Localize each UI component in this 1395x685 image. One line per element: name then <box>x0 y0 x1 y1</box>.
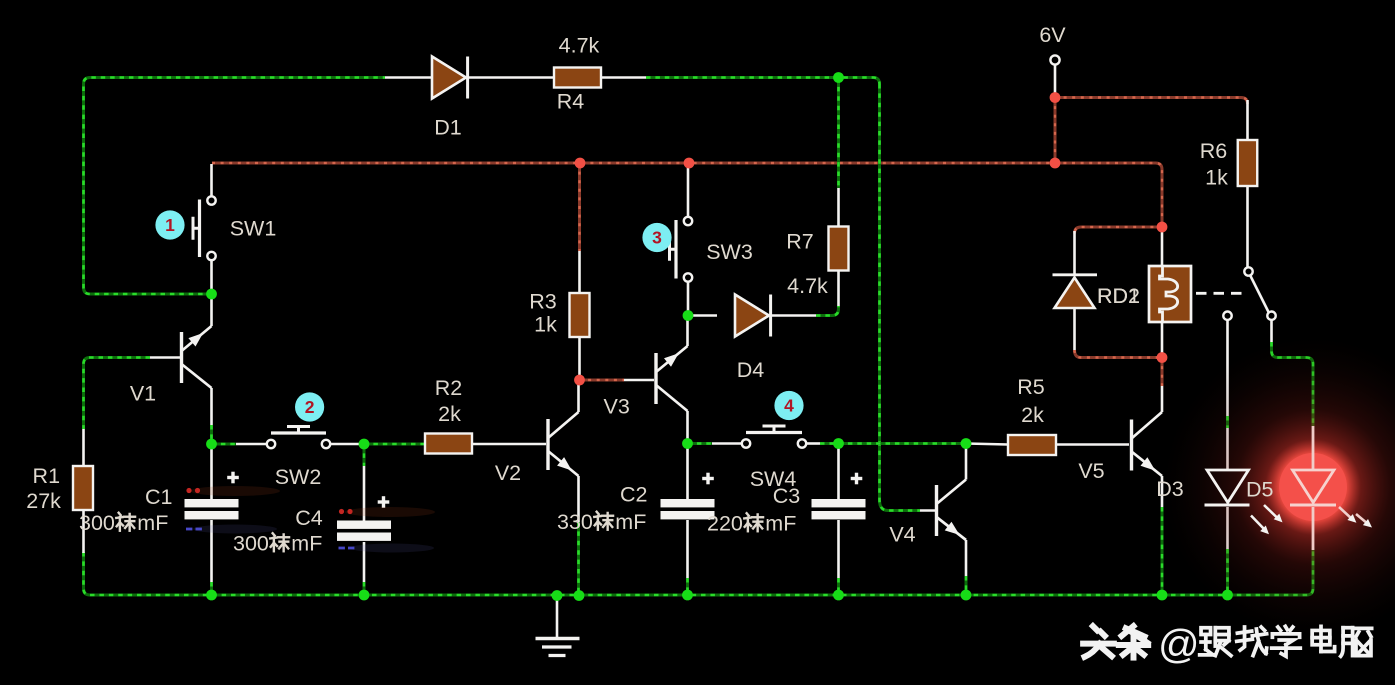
capacitor C1 <box>185 499 239 519</box>
svg-text:1k: 1k <box>534 313 557 337</box>
svg-text:R7: R7 <box>786 230 813 254</box>
wire ground stem <box>556 597 559 638</box>
wire C1 top lead <box>210 444 213 499</box>
svg-text:C1: C1 <box>145 485 172 509</box>
wire V3 bottom <box>686 411 689 440</box>
LED D5 glow <box>1163 337 1395 637</box>
node rail C4 <box>359 590 370 601</box>
node V4 collector <box>961 438 972 449</box>
svg-text:mF: mF <box>765 512 796 536</box>
svg-text:mF: mF <box>615 510 646 534</box>
switch SW2 <box>267 427 330 449</box>
wire D3 top lead2 <box>1226 428 1229 470</box>
resistor R7 <box>829 227 849 271</box>
wire V4 emitter white <box>965 540 968 576</box>
svg-text:6V: 6V <box>1039 23 1066 47</box>
wire C3 to V4 green <box>839 442 967 445</box>
svg-text:SW2: SW2 <box>275 465 322 489</box>
svg-text:R4: R4 <box>557 90 585 114</box>
svg-text:3: 3 <box>652 228 662 248</box>
diode D3 LED <box>1205 470 1250 505</box>
diode RD1 zener <box>1053 275 1098 308</box>
wire C4 top green <box>363 444 366 466</box>
relay coil RD2 <box>1149 266 1191 322</box>
marker 2 <box>295 392 324 421</box>
wire C3 bottom lead <box>837 520 840 578</box>
node rail C1 <box>206 590 217 601</box>
wire D5 feed white <box>1270 320 1273 342</box>
svg-text:2k: 2k <box>438 402 461 426</box>
wire D3 bottom lead <box>1226 507 1229 549</box>
wire R7 top green <box>837 78 840 189</box>
marker 1 <box>155 210 184 239</box>
capacitor C2 <box>661 499 715 519</box>
ground <box>536 639 580 656</box>
capacitor C4 polarity <box>378 496 390 508</box>
wire SW3 to D4 <box>688 314 717 317</box>
wire row1 dot to SW2 green <box>212 443 237 446</box>
wire V1 emitter <box>210 388 213 425</box>
wire V5 collector red <box>1161 358 1164 387</box>
wire coil bottom red <box>1075 350 1163 358</box>
wire R1 bottom lead <box>82 510 85 553</box>
wire V4 emitter green <box>965 576 968 593</box>
wire R3 bottom lead <box>578 337 581 378</box>
wire V5 collector white <box>1161 386 1164 412</box>
switch SW1 <box>193 196 216 260</box>
wire V4 to R5 white <box>966 444 1008 445</box>
wire V3 top <box>686 316 689 347</box>
diode D4 <box>735 295 771 337</box>
capacitor C4 <box>337 521 391 541</box>
diode D1 <box>432 57 468 99</box>
svg-text:C2: C2 <box>620 483 647 507</box>
svg-text:R5: R5 <box>1017 375 1045 399</box>
capacitor C1 charge marks <box>186 486 280 534</box>
wire D3 top green tick <box>1226 416 1229 428</box>
node SW1 bottom <box>206 289 217 300</box>
wire C4 bottom green <box>363 582 366 593</box>
wire V4 collector <box>965 448 968 480</box>
label C3 value <box>707 512 796 536</box>
wire V2 emitter white <box>577 476 580 522</box>
node rail ground <box>552 590 563 601</box>
svg-text:C4: C4 <box>295 506 323 530</box>
wire SW1 bottom lead <box>210 260 213 290</box>
svg-text:RD2: RD2 <box>1097 284 1140 308</box>
svg-text:mF: mF <box>291 532 322 556</box>
node C3 top <box>833 438 844 449</box>
wire C3 top lead <box>837 444 840 499</box>
wire coil top lead <box>1161 231 1164 266</box>
wire top loop green <box>84 78 386 295</box>
wire R1 top lead <box>82 429 85 466</box>
wire bottom rail green <box>84 548 1314 595</box>
diode D3 light arrows <box>1251 505 1283 534</box>
svg-text:V3: V3 <box>604 395 630 419</box>
transistor V5 <box>1132 412 1163 476</box>
node R3 top <box>575 158 586 169</box>
wire coil bottom lead <box>1161 322 1164 354</box>
wire D1 anode white <box>385 76 432 79</box>
svg-text:1k: 1k <box>1205 166 1228 190</box>
wire C2 top lead <box>686 444 689 499</box>
capacitor C3 <box>812 499 866 519</box>
wire D4 to R7 green <box>816 306 839 316</box>
wire R3 top red <box>578 163 581 251</box>
node coil bottom <box>1157 352 1168 363</box>
wire 6V lead <box>1054 65 1057 94</box>
node coil top <box>1157 222 1168 233</box>
node rail D3 <box>1222 590 1233 601</box>
svg-text:330: 330 <box>557 510 593 534</box>
svg-text:R3: R3 <box>529 290 557 314</box>
capacitor C1 polarity <box>227 472 239 484</box>
wire R6 top lead <box>1246 100 1249 140</box>
wire D5 top lead pink <box>1312 426 1315 470</box>
svg-text:220: 220 <box>707 512 743 536</box>
svg-text:V5: V5 <box>1078 459 1104 483</box>
node rail V4 <box>961 590 972 601</box>
wire SW1 top lead <box>210 164 213 197</box>
wire V4 base white <box>920 509 937 512</box>
relay switch <box>1223 267 1275 320</box>
wire C1 bottom green <box>210 582 213 593</box>
node 6V <box>1050 92 1061 103</box>
wire R7 bottom lead <box>837 271 840 307</box>
wire zener bottom lead <box>1073 308 1076 352</box>
label C2 value <box>557 510 646 534</box>
node rail C2 <box>682 590 693 601</box>
resistor R6 <box>1238 140 1258 186</box>
wire R2 to V2 base <box>471 443 546 446</box>
node top R7 <box>833 72 844 83</box>
switch SW4 <box>742 426 806 448</box>
svg-text:SW3: SW3 <box>706 240 753 264</box>
wire V3 node to SW4 white <box>712 442 741 445</box>
svg-text:@: @ <box>1158 621 1200 667</box>
resistor R5 <box>1008 435 1056 455</box>
wire R5 to V5 base <box>1056 443 1129 446</box>
wire long green vertical to V4 <box>880 84 921 511</box>
resistor R2 <box>425 434 472 454</box>
svg-text:V2: V2 <box>495 461 521 485</box>
svg-text:300: 300 <box>233 532 269 556</box>
node V2 collector <box>574 375 585 386</box>
transistor V1 <box>182 326 212 388</box>
wire V2 collector <box>577 380 580 412</box>
node V1 emitter <box>206 439 217 450</box>
wire SW4 to C3 white <box>807 442 821 445</box>
wire R3 top lead white <box>578 251 581 293</box>
wire D3 bottom green <box>1226 549 1229 593</box>
wire V1 emitter green <box>210 425 213 440</box>
wire V3 node to SW4 green <box>688 442 713 445</box>
transistor V4 <box>937 480 967 541</box>
wire C4 top lead <box>363 466 366 521</box>
wire R4 right white <box>601 76 646 79</box>
wire C3 bottom green <box>837 578 840 593</box>
wire C4 bottom lead <box>363 542 366 582</box>
capacitor C3 polarity <box>851 473 863 485</box>
diode D5 light arrows <box>1339 507 1372 528</box>
node 6V rail <box>1050 158 1061 169</box>
node SW3 bottom <box>683 310 694 321</box>
svg-text:27k: 27k <box>26 489 61 513</box>
svg-text:1: 1 <box>165 215 175 235</box>
relay linkage dashed line <box>1196 292 1243 295</box>
wire D3 top lead <box>1226 320 1229 416</box>
wire 6V drop red <box>1054 98 1057 164</box>
resistor R1 <box>73 466 93 510</box>
wire coil top red <box>1075 227 1163 234</box>
wire SW4 to C3 green <box>820 442 839 445</box>
wire D4 to R7 white <box>772 314 816 317</box>
svg-text:V1: V1 <box>130 382 156 406</box>
svg-text:R1: R1 <box>33 464 60 488</box>
wire V1 base green <box>84 358 151 430</box>
wire D5 feed green <box>1272 342 1314 426</box>
transistor V3 <box>656 346 688 411</box>
label C4 value <box>233 532 322 556</box>
svg-text:4.7k: 4.7k <box>787 274 828 298</box>
label RD1 RD2 <box>1097 284 1140 308</box>
svg-text:D4: D4 <box>737 358 765 382</box>
label C1 value <box>79 511 168 535</box>
wire red rail <box>212 163 1162 227</box>
diode D5 LED <box>1290 470 1336 505</box>
marker 3 <box>642 223 671 252</box>
capacitor C2 polarity <box>702 473 714 485</box>
wire R4 to corner green <box>646 78 880 85</box>
wire D5 bottom lead pink <box>1312 507 1315 550</box>
wire 6V to R6 red <box>1055 98 1248 105</box>
wire zener top lead <box>1073 231 1076 274</box>
wire V1 collector <box>210 294 213 326</box>
svg-text:4.7k: 4.7k <box>559 34 600 58</box>
wire C2 bottom green <box>686 578 689 593</box>
svg-text:2k: 2k <box>1021 403 1044 427</box>
node C4 top <box>359 439 370 450</box>
svg-text:D5: D5 <box>1246 478 1274 502</box>
svg-text:D1: D1 <box>434 116 461 140</box>
wire V1 base white <box>150 356 180 359</box>
wire R6 bottom lead <box>1246 186 1249 267</box>
svg-text:R6: R6 <box>1200 139 1228 163</box>
wire C4 node to R2 green <box>364 443 424 446</box>
switch SW3 <box>670 217 693 282</box>
resistor R3 <box>570 293 590 337</box>
wire SW3 top lead <box>687 164 690 217</box>
svg-text:V4: V4 <box>889 523 915 547</box>
wire V2 base red <box>580 379 625 382</box>
node rail C3 <box>833 590 844 601</box>
svg-text:SW1: SW1 <box>230 217 277 241</box>
svg-text:R2: R2 <box>435 376 462 400</box>
marker 4 <box>774 391 803 420</box>
capacitor C4 charge marks <box>339 507 436 553</box>
battery terminal 6V <box>1050 55 1059 64</box>
wire V5 emitter green <box>1161 507 1164 593</box>
node rail V5 <box>1157 590 1168 601</box>
svg-text:4: 4 <box>784 396 794 416</box>
watermark toutiao <box>1083 621 1372 667</box>
svg-text:300: 300 <box>79 511 115 535</box>
resistor R4 <box>554 68 601 88</box>
node SW3 top <box>684 158 695 169</box>
svg-text:D3: D3 <box>1156 477 1184 501</box>
wire D1 to R4 white <box>469 76 555 79</box>
wire C1 bottom lead <box>210 520 213 582</box>
wire SW3 bottom lead <box>687 282 690 312</box>
node C2 top <box>682 438 693 449</box>
svg-text:C3: C3 <box>773 484 801 508</box>
wire R7 top lead white <box>837 188 840 227</box>
node rail V2 <box>574 590 585 601</box>
wire V3 base white <box>624 379 654 382</box>
wire C2 bottom lead <box>686 520 689 578</box>
wire SW2 to C4 node <box>331 443 364 446</box>
wire row1 dot to SW2 white <box>236 443 266 446</box>
transistor V2 <box>548 412 579 476</box>
svg-text:2: 2 <box>305 397 315 417</box>
wire V5 emitter white <box>1161 476 1164 507</box>
wire V2 emitter green <box>577 522 580 593</box>
svg-text:mF: mF <box>137 511 168 535</box>
